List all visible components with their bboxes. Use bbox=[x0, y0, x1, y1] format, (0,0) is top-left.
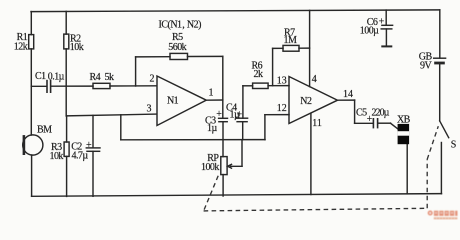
svg-text:9V: 9V bbox=[420, 61, 432, 72]
capacitor C5 right plate bbox=[377, 119, 379, 128]
op-amp N2 bbox=[289, 77, 338, 124]
capacitor C4 bottom plate bbox=[237, 121, 247, 123]
resistor R4 bbox=[93, 83, 110, 88]
microphone BM electret plate bar bbox=[23, 136, 26, 153]
svg-text:2: 2 bbox=[150, 73, 155, 84]
wire: pin3 node vertical of bias L bbox=[120, 115, 122, 140]
wire: RP bottom lead to ground rail bbox=[222, 175, 224, 196]
svg-text:XB: XB bbox=[397, 114, 411, 125]
svg-text:+: + bbox=[216, 109, 222, 120]
wire: R6 right to N2 pin 13 bbox=[268, 85, 289, 87]
resistor R2 bbox=[64, 34, 69, 49]
wire: C3 bottom to RP top bbox=[222, 122, 224, 157]
svg-text:560k: 560k bbox=[168, 42, 186, 53]
wire: pin 12 riser down to bias wire bbox=[264, 115, 266, 140]
wire: R1 top lead from rail bbox=[30, 12, 32, 35]
resistor R5 bbox=[170, 53, 188, 59]
svg-text:12: 12 bbox=[277, 103, 287, 114]
potentiometer RP body bbox=[221, 157, 227, 175]
capacitor C2 top plate bbox=[86, 147, 100, 149]
svg-text:+: + bbox=[237, 110, 243, 121]
svg-text:S: S bbox=[451, 140, 456, 151]
svg-text:1µ: 1µ bbox=[207, 123, 217, 134]
potentiometer RP wiper arrow bbox=[228, 164, 242, 168]
wire: R3 top lead bbox=[66, 116, 68, 142]
capacitor C1 left plate bbox=[46, 81, 48, 93]
wire: C1 to R4 bbox=[51, 85, 93, 87]
watermark text glyph blobs bbox=[434, 211, 458, 216]
svg-text:10k: 10k bbox=[70, 42, 84, 53]
svg-text:C1: C1 bbox=[35, 71, 46, 82]
wire: bias horizontal to pin12 riser bbox=[121, 139, 265, 141]
wire: R7 right lead to supply vertical bbox=[299, 47, 310, 49]
wire: R4 to N1 pin 2 bbox=[110, 85, 157, 87]
svg-text:11: 11 bbox=[312, 118, 322, 129]
svg-text:100µ: 100µ bbox=[360, 26, 379, 37]
wire: R5 left feedback wire bbox=[136, 56, 170, 58]
svg-text:13: 13 bbox=[277, 75, 287, 86]
svg-text:R4: R4 bbox=[90, 72, 101, 83]
wire: R7 left lead bbox=[273, 47, 283, 49]
jack socket XB body bbox=[398, 124, 410, 144]
switch S blade bbox=[440, 121, 449, 138]
wire: dashed diagonal to switch bbox=[427, 126, 438, 159]
wire: C6 bottom lead bbox=[385, 29, 387, 46]
wire: C2 top lead bbox=[92, 115, 94, 147]
wire: N2 pin 11 vertical to ground rail bbox=[310, 113, 312, 194]
wire: N2 pin 12 horizontal bbox=[265, 114, 289, 116]
wire: dashed bottom horizontal bbox=[204, 208, 428, 211]
wire: RP wiper riser to bias wire bbox=[241, 140, 243, 167]
svg-text:4.7µ: 4.7µ bbox=[72, 151, 89, 162]
capacitor C1 right plate bbox=[50, 81, 52, 93]
resistor R3 bbox=[64, 142, 69, 156]
wire: mic node to C1 left plate bbox=[31, 85, 46, 87]
wire: C2 bottom to ground rail bbox=[92, 151, 94, 196]
svg-text:5k: 5k bbox=[105, 72, 114, 83]
wire: R2 top lead from rail bbox=[65, 11, 67, 34]
svg-text:N2: N2 bbox=[300, 96, 312, 107]
resistor R7 bbox=[283, 45, 299, 51]
svg-text:N1: N1 bbox=[167, 96, 179, 107]
wire: C4 bottom lead bbox=[242, 122, 244, 140]
watermark subtext blobs bbox=[434, 217, 458, 219]
capacitor C6 bottom plate bbox=[381, 28, 392, 30]
capacitor C3 top plate bbox=[219, 117, 228, 119]
svg-text:1M: 1M bbox=[284, 35, 297, 46]
wire: R5 right drop to N1 output bbox=[222, 56, 224, 100]
svg-text:+: + bbox=[86, 140, 92, 151]
wire: dashed right vertical bbox=[426, 159, 428, 208]
wire: R3 bottom to ground rail bbox=[66, 156, 68, 196]
battery GB positive plate bbox=[434, 57, 446, 59]
wire: R1 bottom to BM top bbox=[30, 49, 32, 135]
wire: R5 left drop to pin2 node bbox=[135, 57, 137, 86]
svg-text:IC(N1,N2): IC(N1,N2) bbox=[159, 19, 202, 30]
wire: R2 bottom down to pin3 bias node bbox=[65, 49, 67, 116]
capacitor C6 top plate bbox=[382, 24, 393, 26]
capacitor C2 bottom plate bbox=[87, 150, 100, 152]
wire: C4 corner to R6 left bbox=[243, 85, 253, 87]
svg-text:BM: BM bbox=[37, 125, 52, 136]
wire: to C5 left plate bbox=[355, 122, 373, 124]
svg-text:10k: 10k bbox=[50, 151, 64, 162]
wire: XB bottom lead to ground rail bbox=[406, 144, 408, 194]
svg-text:4: 4 bbox=[312, 74, 317, 85]
resistor R6 bbox=[253, 83, 269, 88]
svg-text:+: + bbox=[367, 114, 373, 125]
svg-text:C5: C5 bbox=[356, 107, 367, 118]
wire: switch lower terminal to ground rail bbox=[440, 143, 442, 194]
wire: bias node to N1 pin 3 bbox=[66, 114, 156, 116]
wire: battery top lead from rail bbox=[439, 10, 441, 58]
microphone BM circle bbox=[23, 135, 43, 155]
wire: diagonal into XB top bbox=[391, 123, 398, 129]
svg-text:2k: 2k bbox=[254, 69, 263, 80]
wire: C3 top lead bbox=[222, 100, 224, 118]
wire: top supply rail bbox=[31, 10, 440, 12]
wire: bottom ground rail bbox=[32, 194, 442, 197]
svg-text:12k: 12k bbox=[14, 41, 28, 52]
wire: C5 right to XB bbox=[378, 122, 390, 124]
capacitor C5 left plate bbox=[372, 119, 374, 128]
wire: output corner drop bbox=[354, 100, 356, 123]
wire: N2 output pin 14 bbox=[338, 99, 355, 101]
node: C6 negative terminal bar bbox=[382, 45, 391, 47]
wire: BM bottom to ground rail bbox=[31, 155, 33, 196]
wire: R5 right feedback wire bbox=[188, 55, 223, 57]
op-amp N1 bbox=[157, 76, 206, 126]
wire: R7 left drop to pin13 wire bbox=[272, 48, 274, 85]
svg-text:0.1µ: 0.1µ bbox=[48, 72, 65, 83]
wire: dashed mechanical link from RP bbox=[204, 176, 219, 211]
capacitor C3 bottom plate bbox=[219, 121, 227, 123]
wire: battery bottom lead down to switch bbox=[439, 63, 441, 121]
wire: N2 pin 4 supply vertical from top rail bbox=[309, 10, 311, 86]
svg-text:220µ: 220µ bbox=[372, 107, 390, 118]
wire: N1 output to junction bbox=[206, 99, 223, 101]
svg-text:+: + bbox=[379, 17, 385, 28]
capacitor C4 top plate bbox=[237, 117, 248, 119]
battery GB negative plate bbox=[436, 62, 444, 65]
svg-text:100k: 100k bbox=[201, 162, 219, 173]
wire: C6 top lead from rail bbox=[385, 10, 387, 25]
svg-text:14: 14 bbox=[343, 89, 353, 100]
wire: C4 top lead up to R6 bbox=[242, 86, 244, 118]
svg-text:3: 3 bbox=[147, 103, 152, 114]
svg-text:1: 1 bbox=[209, 87, 214, 98]
resistor R1 bbox=[29, 35, 34, 49]
watermark logo circle bbox=[428, 211, 433, 216]
